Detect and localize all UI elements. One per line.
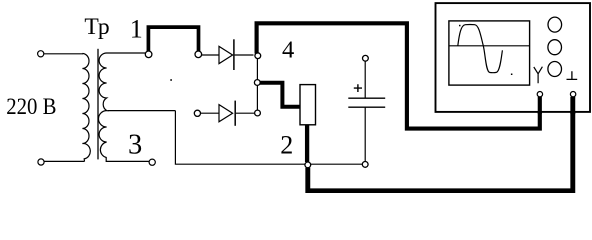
terminal: resistor feed bbox=[254, 80, 260, 86]
wire: secondary center tap bbox=[108, 110, 176, 112]
terminal: node 1 right bbox=[195, 51, 202, 58]
wire: node4 to middle terminal bbox=[256, 58, 258, 80]
wire: ground terminal stub through case bbox=[570, 97, 575, 114]
label: capacitor plus bbox=[354, 84, 362, 92]
screen speck right bbox=[511, 74, 513, 76]
svg-text:Тр: Тр bbox=[84, 14, 109, 40]
transformer core bbox=[97, 49, 99, 160]
capacitor C bottom plate bbox=[348, 106, 385, 108]
stray dot bbox=[170, 79, 172, 81]
label: Y input bbox=[534, 67, 543, 84]
terminal: diode VD2 cathode bbox=[255, 110, 261, 116]
thick wire: resistor bottom to junction bbox=[305, 125, 309, 162]
thick ground wire: junction down, along bottom, up to scope ground bbox=[308, 97, 573, 191]
transformer secondary winding bbox=[99, 53, 150, 161]
jumper thick wire node 1 bbox=[148, 27, 198, 51]
capacitor C top plate bbox=[348, 97, 385, 99]
wire: primary bottom lead bbox=[44, 160, 84, 162]
junction terminal (node 2 bottom) bbox=[305, 162, 311, 168]
wire: primary top lead bbox=[44, 53, 83, 55]
wire: VD2 anode lead bbox=[201, 112, 220, 114]
oscilloscope screen bbox=[449, 21, 530, 85]
wire: VD2 cathode lead bbox=[236, 112, 255, 114]
svg-text:1: 1 bbox=[130, 15, 143, 44]
label: ground input bbox=[567, 71, 578, 79]
svg-text:2: 2 bbox=[280, 130, 293, 159]
wire: bottom rail (center tap return) bbox=[175, 111, 305, 165]
terminal: capacitor top bbox=[363, 55, 369, 61]
terminal: capacitor bottom bbox=[362, 162, 368, 168]
node 4 junction terminal bbox=[255, 53, 261, 59]
transformer T primary winding bbox=[82, 54, 90, 162]
resistor R body bbox=[300, 85, 316, 125]
screen baseline bbox=[449, 45, 530, 47]
screen sine trace bbox=[458, 25, 503, 73]
terminal: node 3 bbox=[149, 159, 155, 165]
knob 3 bbox=[548, 62, 562, 77]
svg-text:4: 4 bbox=[282, 37, 294, 64]
diode VD1 cathode bar bbox=[233, 39, 235, 70]
terminal: scope Y bbox=[537, 92, 542, 97]
oscilloscope case bbox=[436, 3, 591, 112]
diode VD2 triangle bbox=[219, 105, 233, 122]
wire: Y terminal stub through case bbox=[538, 97, 542, 114]
terminal: node 1 left bbox=[145, 51, 152, 58]
terminal: diode VD2 anode bbox=[194, 110, 200, 116]
svg-text:220 В: 220 В bbox=[6, 94, 56, 120]
wire: junction to capacitor bottom bbox=[311, 163, 362, 165]
wire: capacitor top lead bbox=[364, 61, 366, 98]
wire: middle terminal to VD2 cathode terminal bbox=[256, 85, 258, 110]
thick wire: terminal to resistor top bbox=[260, 83, 300, 107]
terminal: primary top (220V input) bbox=[38, 51, 44, 57]
wire: VD1 cathode to node 4 bbox=[235, 54, 254, 56]
wire: node1 to diode VD1 anode bbox=[202, 54, 219, 56]
knob 1 bbox=[548, 17, 562, 32]
terminal: scope ground bbox=[570, 92, 575, 97]
diode VD2 cathode bar bbox=[234, 101, 236, 126]
terminal: primary bottom bbox=[38, 159, 44, 165]
knob 2 bbox=[548, 40, 562, 55]
svg-text:3: 3 bbox=[128, 129, 142, 160]
thick wire: node 4 up and right (top rail to scope) bbox=[257, 23, 540, 128]
screen speck left bbox=[459, 25, 461, 27]
diode VD1 triangle bbox=[219, 46, 233, 63]
wire: capacitor bottom lead bbox=[364, 107, 366, 161]
